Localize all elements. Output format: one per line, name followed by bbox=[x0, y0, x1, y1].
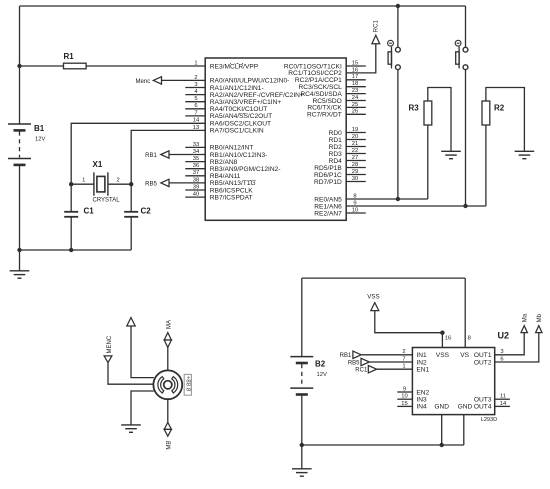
terminal arrow RB5 bbox=[161, 179, 169, 186]
svg-text:RB2/AN8: RB2/AN8 bbox=[210, 159, 238, 166]
svg-text:33: 33 bbox=[193, 142, 199, 148]
U1 pin 22 (RD3) bbox=[346, 153, 366, 155]
wire RB5 to U2 IN2 bbox=[369, 361, 412, 363]
svg-text:EN1: EN1 bbox=[416, 367, 429, 374]
svg-text:RB7/ICSPDAT: RB7/ICSPDAT bbox=[210, 194, 253, 201]
ground R2 bbox=[515, 151, 535, 158]
U1 pin 17 (RC2/P1A/CCP1) bbox=[346, 79, 366, 81]
svg-text:RD0: RD0 bbox=[329, 130, 343, 137]
capacitor C1 bbox=[64, 212, 78, 217]
U1 pin 15 (RC0/T1OSO/T1CKI) bbox=[346, 65, 366, 67]
junction crystal pin 2 node bbox=[129, 182, 133, 186]
wire RB1 to U1 pin 34 bbox=[169, 154, 205, 156]
svg-text:17: 17 bbox=[352, 74, 358, 80]
U2 pin 15 (IN4) bbox=[397, 405, 412, 407]
U1 pin 3 (RA1/AN1/C12IN1-) bbox=[185, 87, 205, 89]
terminal arrow Mb bbox=[536, 326, 542, 333]
svg-text:RC7/RX/DT: RC7/RX/DT bbox=[307, 112, 342, 119]
svg-text:L293D: L293D bbox=[481, 417, 497, 423]
wire motor pin to ground bbox=[131, 391, 154, 425]
svg-text:R1: R1 bbox=[64, 52, 75, 61]
microcontroller U1 PIC16F887 body bbox=[205, 58, 346, 220]
wire VSS terminal bbox=[375, 311, 443, 333]
wire motor pin to MENC bbox=[108, 363, 154, 385]
svg-text:B2: B2 bbox=[315, 360, 326, 369]
svg-text:19: 19 bbox=[352, 127, 358, 133]
svg-text:OUT2: OUT2 bbox=[474, 359, 492, 366]
svg-text:39: 39 bbox=[193, 184, 199, 190]
svg-text:5: 5 bbox=[194, 96, 197, 102]
svg-text:9: 9 bbox=[403, 386, 406, 392]
svg-text:IN1: IN1 bbox=[416, 352, 427, 359]
wire crystal to C2 bbox=[130, 184, 132, 212]
wire U1 pin 8 to R3 bbox=[346, 198, 428, 200]
ground B1 bbox=[10, 271, 30, 278]
svg-text:MENC: MENC bbox=[107, 335, 113, 353]
svg-text:Menc: Menc bbox=[136, 79, 151, 85]
svg-text:29: 29 bbox=[352, 169, 358, 175]
svg-text:U2: U2 bbox=[498, 331, 510, 341]
push button S1 bbox=[388, 40, 401, 69]
wire motor bottom to MB bbox=[167, 399, 169, 422]
svg-text:C2: C2 bbox=[141, 207, 152, 216]
svg-text:8: 8 bbox=[468, 336, 471, 342]
svg-text:IN4: IN4 bbox=[416, 404, 427, 411]
wire bottom rail to C1 C2 bbox=[20, 249, 132, 251]
wire button 2 to RE1 net bbox=[465, 70, 467, 206]
svg-text:30: 30 bbox=[352, 176, 358, 182]
terminal arrow RC1 in bbox=[368, 366, 376, 373]
U2 pin 11 (OUT3) bbox=[495, 398, 510, 400]
svg-text:3: 3 bbox=[194, 82, 197, 88]
junction at R1 branch bbox=[17, 64, 21, 68]
svg-text:RB3/AN9/PGM/C12IN2-: RB3/AN9/PGM/C12IN2- bbox=[210, 166, 281, 173]
wire B2 top rail to VS bbox=[302, 277, 465, 279]
U1 pin 24 (RC5/SDO) bbox=[346, 100, 366, 102]
svg-text:CRYSTAL: CRYSTAL bbox=[93, 198, 121, 204]
wire left rail down to B1 bbox=[19, 6, 21, 124]
battery B1 bbox=[8, 124, 31, 165]
svg-text:R2: R2 bbox=[494, 104, 505, 113]
wire R1 to U1 pin 1 bbox=[86, 65, 205, 67]
terminal arrow MENC bbox=[104, 356, 112, 363]
wire RB1 to U2 IN1 bbox=[361, 354, 412, 356]
junction button2 R2 net bbox=[463, 204, 467, 208]
svg-text:15: 15 bbox=[352, 60, 358, 66]
wire motor top to MA bbox=[167, 347, 169, 370]
terminal arrow RB5 in bbox=[361, 358, 369, 365]
svg-text:10: 10 bbox=[401, 394, 407, 400]
svg-text:36: 36 bbox=[193, 163, 199, 169]
svg-text:RB5: RB5 bbox=[348, 360, 360, 366]
wire top power rail bbox=[20, 5, 466, 7]
svg-text:RA7/OSC1/CLKIN: RA7/OSC1/CLKIN bbox=[210, 128, 264, 135]
svg-text:14: 14 bbox=[193, 118, 200, 124]
wire U1 pin 13 to crystal pin 2 bbox=[131, 130, 205, 184]
svg-text:RA2/AN2/VREF-/CVREF/C2IN+: RA2/AN2/VREF-/CVREF/C2IN+ bbox=[210, 92, 304, 99]
push button S2 bbox=[455, 40, 468, 69]
wire R2 bottom bbox=[485, 125, 487, 206]
svg-text:24: 24 bbox=[352, 95, 359, 101]
svg-text:RE2/AN7: RE2/AN7 bbox=[314, 210, 342, 217]
U1 pin 10 (RE2/AN7) bbox=[346, 212, 366, 214]
svg-text:25: 25 bbox=[352, 102, 358, 108]
svg-text:VS: VS bbox=[460, 352, 469, 359]
wire U1 pin 14 to crystal pin 1 bbox=[71, 123, 205, 184]
svg-text:21: 21 bbox=[352, 141, 358, 147]
svg-text:RA3/AN3/VREF+/C1IN+: RA3/AN3/VREF+/C1IN+ bbox=[210, 99, 282, 106]
svg-text:RD5/P1B: RD5/P1B bbox=[314, 165, 342, 172]
svg-text:RD6/P1C: RD6/P1C bbox=[314, 172, 342, 179]
svg-text:27: 27 bbox=[352, 155, 358, 161]
U1 pin 39 (RB6/ICSPCLK) bbox=[185, 189, 205, 191]
U1 pin 6 (RA4/T0CKI/C1OUT) bbox=[185, 108, 205, 110]
svg-text:RB4/AN11: RB4/AN11 bbox=[210, 173, 241, 180]
svg-text:MA: MA bbox=[167, 320, 173, 329]
wire motor pin to up arrow bbox=[131, 326, 154, 378]
svg-text:RE0/AN5: RE0/AN5 bbox=[314, 196, 342, 203]
svg-text:VSS: VSS bbox=[367, 293, 379, 300]
terminal arrow Menc bbox=[153, 77, 161, 84]
svg-text:RB6/ICSPCLK: RB6/ICSPCLK bbox=[210, 187, 253, 194]
U1 pin 35 (RB2/AN8) bbox=[185, 161, 205, 163]
svg-text:X1: X1 bbox=[93, 160, 103, 169]
wire R2 top to ground bbox=[486, 88, 525, 152]
svg-text:23: 23 bbox=[352, 88, 358, 94]
svg-text:RB1: RB1 bbox=[340, 353, 352, 359]
motor rpm display bbox=[184, 374, 191, 395]
U1 pin 21 (RD2) bbox=[346, 146, 366, 148]
svg-text:13: 13 bbox=[193, 125, 199, 131]
svg-text:C1: C1 bbox=[84, 207, 95, 216]
wire B2 top bbox=[301, 278, 303, 357]
U1 pin 7 (RA5/AN4/SS/C2OUT) bbox=[185, 115, 205, 117]
terminal arrow MB lower bbox=[164, 429, 171, 436]
wire top rail to button 1 bbox=[397, 6, 399, 47]
U1 pin 4 (RA2/AN2/VREF-/CVREF/C2IN+) bbox=[185, 94, 205, 96]
svg-text:16: 16 bbox=[445, 336, 451, 342]
wire U1 pin 16 up to RC1 terminal bbox=[346, 44, 376, 73]
wire top rail corner to button 2 bbox=[465, 6, 467, 47]
junction at B1 bottom bbox=[17, 248, 21, 252]
resistor R1 bbox=[64, 63, 87, 69]
junction VSS pin16 bbox=[440, 331, 444, 335]
ground R3 bbox=[441, 151, 461, 158]
terminal arrow MB upper bbox=[164, 422, 171, 429]
wire U2 GND1 down bbox=[441, 415, 443, 445]
svg-text:GND: GND bbox=[458, 404, 473, 411]
svg-text:OUT4: OUT4 bbox=[474, 404, 492, 411]
svg-text:Mb: Mb bbox=[537, 313, 543, 322]
U1 pin 29 (RD6/P1C) bbox=[346, 174, 366, 176]
terminal arrow VSS bbox=[371, 303, 379, 311]
motor M1 with encoder bbox=[153, 370, 182, 399]
junction top rail button 1 bbox=[396, 4, 400, 8]
svg-text:37: 37 bbox=[193, 170, 199, 176]
U1 pin 18 (RC3/SCK/SCL) bbox=[346, 86, 366, 88]
svg-text:15: 15 bbox=[401, 401, 407, 407]
svg-text:RB5: RB5 bbox=[145, 181, 157, 187]
wire to crystal left bbox=[71, 183, 94, 185]
wire to R1 bbox=[20, 65, 64, 67]
svg-text:7: 7 bbox=[194, 110, 197, 116]
ground B2 bbox=[292, 469, 312, 476]
svg-text:B1: B1 bbox=[34, 124, 45, 133]
svg-text:1: 1 bbox=[194, 60, 197, 66]
junction button1 R3 net bbox=[396, 197, 400, 201]
wire C1 to bottom rail bbox=[70, 217, 72, 250]
svg-text:26: 26 bbox=[352, 109, 358, 115]
svg-text:RA0/AN0/ULPWU/C12IN0-: RA0/AN0/ULPWU/C12IN0- bbox=[210, 78, 290, 85]
battery B2 bbox=[290, 357, 313, 395]
svg-text:IN3: IN3 bbox=[416, 397, 427, 404]
wire RB5 to U1 pin 38 bbox=[169, 182, 205, 184]
svg-text:EN2: EN2 bbox=[416, 389, 429, 396]
wire Menc to U1 pin 2 bbox=[162, 79, 206, 81]
svg-text:RB1: RB1 bbox=[145, 153, 157, 159]
svg-text:RD4: RD4 bbox=[329, 158, 343, 165]
U1 pin 19 (RD0) bbox=[346, 132, 366, 134]
terminal arrow Ma bbox=[521, 326, 527, 333]
crystal X1 bbox=[94, 172, 108, 195]
svg-text:RB5/AN13/T1G: RB5/AN13/T1G bbox=[210, 180, 256, 187]
U2 pin 9 (EN2) bbox=[397, 391, 412, 393]
svg-text:12V: 12V bbox=[35, 137, 45, 143]
U1 pin 30 (RD7/P1D) bbox=[346, 181, 366, 183]
motor driver U2 L293D body bbox=[412, 348, 494, 415]
svg-text:RD3: RD3 bbox=[329, 151, 343, 158]
svg-text:35: 35 bbox=[193, 156, 199, 162]
svg-text:12V: 12V bbox=[317, 372, 327, 378]
U1 pin 23 (RC4/SDI/SDA) bbox=[346, 93, 366, 95]
svg-text:RC1: RC1 bbox=[373, 20, 379, 33]
svg-text:MB: MB bbox=[167, 441, 173, 450]
capacitor C2 bbox=[124, 212, 138, 217]
wire crystal right bbox=[108, 183, 131, 185]
U1 pin 26 (RC7/RX/DT) bbox=[346, 113, 366, 115]
svg-text:VSS: VSS bbox=[436, 352, 450, 359]
svg-text:11: 11 bbox=[500, 394, 506, 400]
junction C1 bottom bbox=[69, 248, 73, 252]
terminal arrow RC1 bbox=[372, 35, 380, 44]
svg-text:RA4/T0CKI/C1OUT: RA4/T0CKI/C1OUT bbox=[210, 106, 268, 113]
svg-text:OUT1: OUT1 bbox=[474, 352, 492, 359]
junction B2 bottom bbox=[300, 443, 304, 447]
terminal arrow RB1 bbox=[161, 151, 169, 158]
wire U2 GND2 down bbox=[463, 415, 465, 445]
svg-text:RA1/AN1/C12IN1-: RA1/AN1/C12IN1- bbox=[210, 85, 264, 92]
svg-text:IN2: IN2 bbox=[416, 359, 427, 366]
wire OUT2 to Mb bbox=[495, 333, 539, 362]
junction crystal pin 1 node bbox=[69, 182, 73, 186]
svg-text:R3: R3 bbox=[409, 104, 420, 113]
U1 pin 33 (RB0/AN12/INT) bbox=[185, 146, 205, 148]
U1 pin 36 (RB3/AN9/PGM/C12IN2-) bbox=[185, 168, 205, 170]
U1 pin 20 (RD1) bbox=[346, 139, 366, 141]
svg-text:28: 28 bbox=[352, 162, 358, 168]
wire B1 to bottom node bbox=[19, 165, 21, 250]
U2 pin 14 (OUT4) bbox=[495, 405, 510, 407]
svg-text:GND: GND bbox=[434, 404, 449, 411]
svg-text:OUT3: OUT3 bbox=[474, 397, 492, 404]
wire C2 to bottom rail bbox=[130, 217, 132, 250]
wire B2 bottom bbox=[301, 395, 303, 445]
svg-text:22: 22 bbox=[352, 148, 358, 154]
svg-text:6: 6 bbox=[194, 103, 197, 109]
resistor R2 bbox=[482, 101, 490, 125]
svg-text:RE1/AN6: RE1/AN6 bbox=[314, 203, 342, 210]
svg-text:2: 2 bbox=[117, 178, 120, 184]
terminal arrow MA lower bbox=[164, 340, 171, 347]
wire R3 top to ground bbox=[428, 88, 451, 152]
U1 pin 40 (RB7/ICSPDAT) bbox=[185, 196, 205, 198]
terminal arrow unlabeled bbox=[127, 318, 135, 327]
wire button 1 to RE0 net bbox=[397, 70, 399, 199]
svg-text:18: 18 bbox=[352, 81, 358, 87]
svg-text:1: 1 bbox=[82, 178, 85, 184]
svg-text:RD2: RD2 bbox=[329, 144, 343, 151]
wire OUT1 to Ma bbox=[495, 333, 525, 355]
terminal arrow RB1 in bbox=[353, 351, 361, 358]
svg-text:RA5/AN4/SS/C2OUT: RA5/AN4/SS/C2OUT bbox=[210, 113, 272, 120]
svg-text:RD1: RD1 bbox=[329, 137, 343, 144]
wire U1 pin 9 to R2 bbox=[346, 205, 486, 207]
svg-text:RC1: RC1 bbox=[355, 368, 368, 374]
wire VSS pin 16 bbox=[441, 333, 443, 348]
U1 pin 27 (RD4) bbox=[346, 160, 366, 162]
svg-text:Ma: Ma bbox=[523, 313, 529, 322]
svg-text:14: 14 bbox=[500, 401, 507, 407]
svg-text:RD7/P1D: RD7/P1D bbox=[314, 179, 342, 186]
svg-text:20: 20 bbox=[352, 134, 358, 140]
wire crystal to C1 bbox=[70, 184, 72, 212]
U2 pin 10 (IN3) bbox=[397, 398, 412, 400]
junction GND rail bbox=[440, 443, 444, 447]
svg-text:RA6/OSC2/CLKOUT: RA6/OSC2/CLKOUT bbox=[210, 121, 271, 128]
svg-text:RE3/MCLR/VPP: RE3/MCLR/VPP bbox=[210, 63, 259, 70]
wire to B2 ground bbox=[301, 445, 303, 469]
svg-text:RB0/AN12/INT: RB0/AN12/INT bbox=[210, 145, 254, 152]
wire RC1 to U2 EN1 bbox=[377, 368, 413, 370]
wire R3 bottom bbox=[427, 125, 429, 199]
terminal arrow MA upper bbox=[164, 333, 171, 340]
resistor R3 bbox=[424, 101, 432, 125]
svg-text:RB1/AN10/C12IN3-: RB1/AN10/C12IN3- bbox=[210, 152, 268, 159]
U1 pin 25 (RC6/TX/CK) bbox=[346, 106, 366, 108]
U1 pin 28 (RD5/P1B) bbox=[346, 167, 366, 169]
wire ground rail to U2 GND bbox=[302, 444, 464, 446]
svg-text:10: 10 bbox=[352, 207, 358, 213]
svg-text:+88.8: +88.8 bbox=[185, 376, 192, 392]
svg-text:40: 40 bbox=[193, 192, 199, 198]
U1 pin 37 (RB4/AN11) bbox=[185, 175, 205, 177]
U1 pin 5 (RA3/AN3/VREF+/C1IN+) bbox=[185, 101, 205, 103]
wire VS pin 8 from B2 bbox=[464, 278, 466, 347]
wire to ground bbox=[19, 250, 21, 271]
ground motor bbox=[121, 425, 141, 432]
